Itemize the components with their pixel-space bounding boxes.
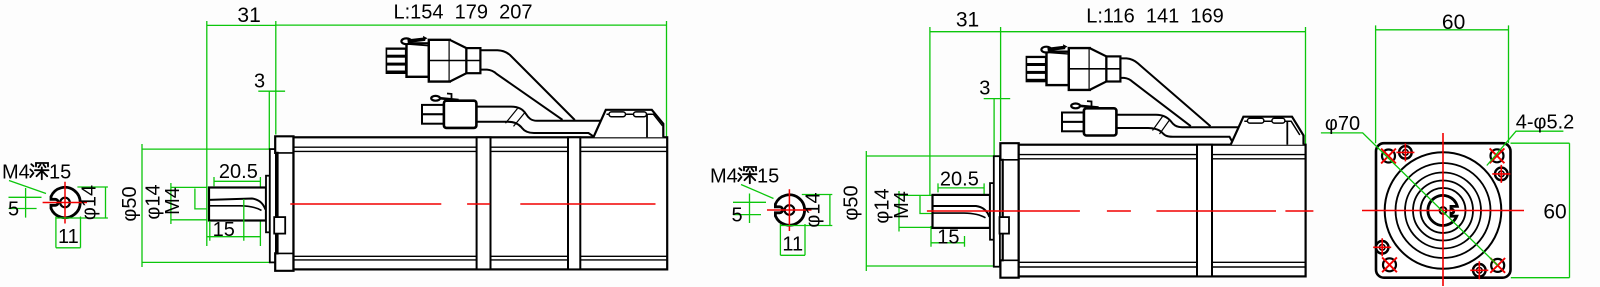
svg-text:60: 60: [1543, 201, 1566, 224]
dim L D1: [276, 21, 667, 137]
cable A power D1: [480, 50, 575, 120]
svg-text:M4: M4: [162, 187, 184, 215]
dim phi50 D2: [866, 151, 1000, 271]
cable A power D2: [1120, 58, 1210, 126]
svg-text:15: 15: [49, 162, 71, 184]
svg-text:φ50: φ50: [119, 186, 141, 221]
rear boss D1: [593, 110, 663, 138]
svg-text:φ14: φ14: [802, 192, 824, 227]
pilot boss phi50 D2: [994, 156, 1000, 267]
body inner lines D1: [294, 147, 668, 260]
mounting hole X bottom-left: [1382, 257, 1397, 272]
dim 31 D1: [207, 21, 276, 246]
screw hole + bottom-right: [1470, 261, 1488, 279]
concentric circle r30: [1413, 181, 1473, 241]
cable B encoder D2: [1116, 115, 1238, 128]
boss slots D1: [609, 112, 626, 117]
svg-text:11: 11: [782, 234, 803, 256]
boss top inner band D2: [1244, 121, 1300, 135]
flange division lines D2: [1000, 160, 1018, 260]
shaft circle with notch front: [1428, 195, 1457, 225]
cable B encoder D1: [476, 107, 601, 121]
section band 2 D1: [568, 137, 580, 269]
boss top inner band D1: [607, 114, 663, 126]
flange division lines D1: [275, 153, 293, 254]
concentric circle r37.5: [1405, 173, 1481, 249]
dim phi14 end view D1: [56, 187, 108, 218]
boss slots D2: [1247, 118, 1264, 123]
encoder connector D2: [1062, 101, 1116, 135]
dim 11 D2: [780, 224, 805, 255]
svg-text:15: 15: [757, 166, 779, 188]
shaft shoulder step D2: [990, 183, 994, 240]
shaft side view D1: [209, 188, 266, 221]
dim 20.5 D1: [214, 177, 260, 246]
svg-text:M4: M4: [710, 166, 738, 188]
dim 60 right: [1511, 143, 1570, 278]
svg-text:15: 15: [213, 219, 235, 241]
shaft flat lines D2: [933, 206, 990, 217]
svg-text:3: 3: [254, 71, 265, 93]
dim 15 D1: [207, 199, 261, 241]
front crosshair: [1362, 133, 1524, 286]
svg-text:31: 31: [237, 4, 260, 27]
flange square: [1376, 143, 1511, 278]
body inner lines D2: [1019, 155, 1306, 267]
svg-text:20.5: 20.5: [940, 168, 979, 190]
M4 hole front: [1440, 207, 1447, 214]
screw hole + top-right: [1492, 165, 1510, 183]
svg-text:60: 60: [1442, 11, 1465, 34]
end view centerline cross D1: [43, 182, 87, 224]
dim 31 D2: [930, 27, 1001, 195]
svg-text:5: 5: [732, 205, 743, 227]
boss inner line D2: [1286, 121, 1288, 144]
flange tab D2: [1000, 217, 1010, 234]
shaft shoulder step D1: [266, 176, 270, 233]
screw hole + bottom-left: [1373, 238, 1391, 256]
end view shaft circle D2: [775, 195, 804, 225]
encoder connector D1: [422, 94, 476, 128]
flange tab D1: [274, 217, 285, 234]
flange plate D1: [275, 136, 293, 270]
shaft side view D2: [933, 195, 991, 228]
svg-text:L:154 179 207: L:154 179 207: [393, 1, 532, 23]
svg-text:M4: M4: [891, 191, 913, 219]
dim 3 D2: [984, 99, 1011, 156]
end view shaft circle D1: [51, 187, 80, 217]
label M4 shaft tap D2: [920, 196, 932, 214]
dim 3 D1: [258, 91, 285, 149]
power connector D2: [1026, 44, 1121, 90]
power connector D1: [386, 36, 481, 82]
dim phi14 side D1: [171, 183, 208, 224]
svg-text:L:116 141 169: L:116 141 169: [1086, 6, 1224, 28]
svg-text:31: 31: [956, 9, 979, 32]
dim 11 D1: [56, 217, 81, 248]
svg-text:φ50: φ50: [841, 185, 863, 220]
leader M4深15 D2: [741, 185, 774, 199]
dim 5 D1: [9, 188, 42, 218]
cable B bend creases D2: [1153, 117, 1170, 135]
boss inner line D1: [646, 114, 648, 137]
svg-text:3: 3: [979, 77, 990, 99]
svg-text:M4: M4: [2, 162, 30, 184]
centerline D1: [290, 203, 667, 205]
dim 60 top: [1376, 25, 1509, 143]
end view centerline cross D2: [767, 189, 812, 231]
svg-text:20.5: 20.5: [219, 161, 258, 183]
section band 1 D1: [477, 137, 491, 269]
cable B bend creases D1: [506, 109, 526, 127]
leader M4深15 D1: [9, 181, 46, 194]
concentric circle r22.5: [1421, 188, 1466, 233]
section band D2: [1197, 145, 1212, 277]
dim L D2: [1001, 27, 1306, 146]
rear boss D2: [1231, 117, 1304, 145]
motor body D2: [1019, 145, 1306, 277]
dim 20.5 D2: [938, 183, 984, 200]
svg-text:4-φ5.2: 4-φ5.2: [1516, 112, 1575, 134]
dim phi50 D1: [142, 144, 278, 267]
svg-text:φ70: φ70: [1325, 113, 1360, 135]
dim phi14 side D2: [899, 191, 932, 232]
mounting hole X top-left: [1381, 149, 1396, 164]
screw hole + top-left: [1396, 143, 1414, 161]
label M4 shaft tap D1: [195, 189, 207, 209]
shaft flat lines D1: [210, 199, 266, 210]
end view M4 hole D2: [785, 205, 795, 215]
concentric circle r59: [1385, 152, 1502, 269]
svg-text:5: 5: [8, 199, 19, 221]
dim 5 D2: [733, 194, 766, 224]
dim phi14 end view D2: [780, 195, 832, 226]
end view M4 hole D1: [60, 198, 70, 208]
pilot boss phi50 D1: [270, 149, 276, 262]
dim 15 D2: [931, 226, 965, 247]
svg-text:15: 15: [937, 227, 959, 249]
concentric circle r48: [1396, 163, 1491, 258]
mounting hole X top-right: [1490, 148, 1505, 163]
mounting hole X bottom-right: [1490, 258, 1505, 273]
4-phi5.2 leader: [1487, 131, 1564, 165]
flange plate D2: [1000, 143, 1018, 278]
phi70 leader diagonal: [1321, 133, 1498, 266]
centerline D2: [927, 210, 1314, 212]
motor body D1: [294, 137, 668, 269]
svg-text:11: 11: [58, 226, 79, 248]
svg-text:φ14: φ14: [79, 185, 101, 220]
